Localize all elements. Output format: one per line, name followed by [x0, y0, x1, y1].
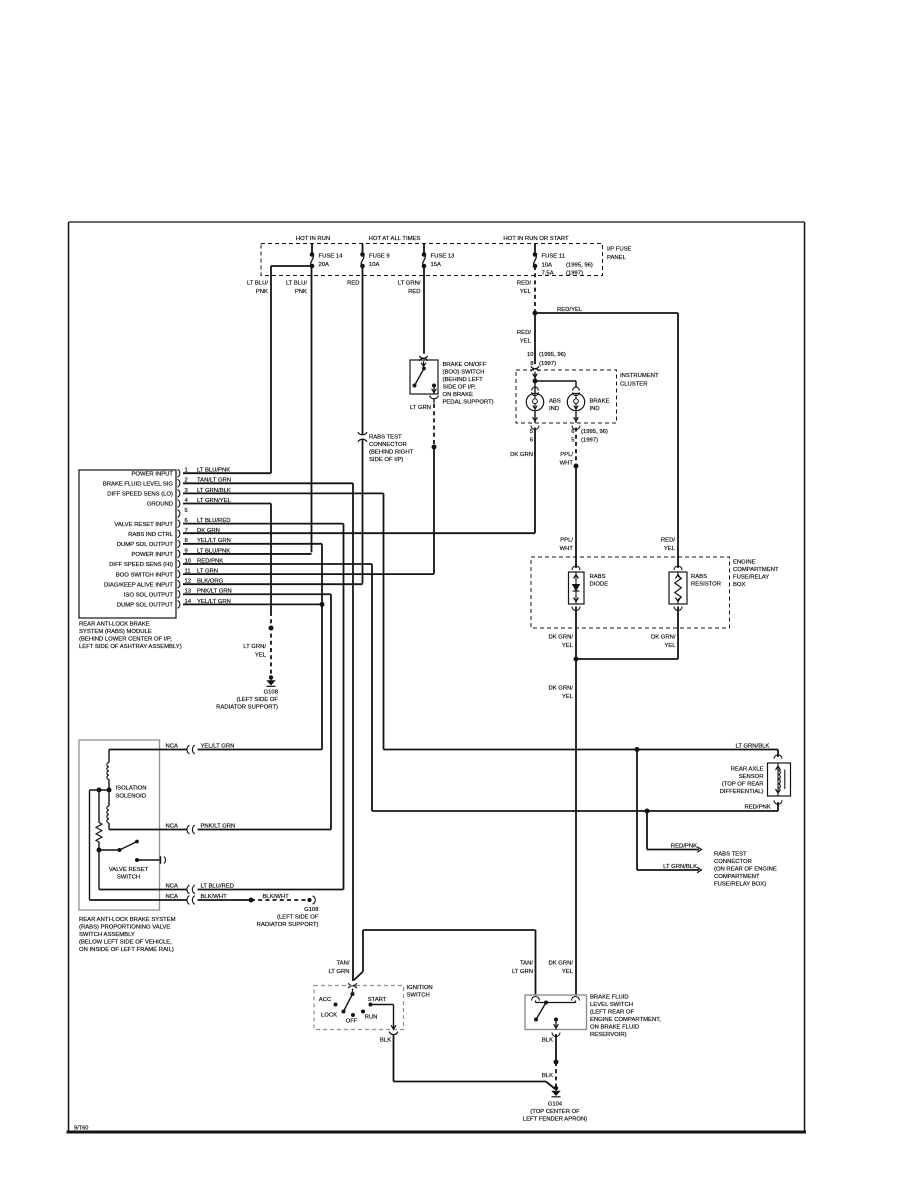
label G108 second (LEFT SIDE OF RADIATOR SUPPORT): [257, 907, 320, 928]
svg-text:PPL/: PPL/: [560, 538, 573, 544]
svg-text:(LEFT REAR OF: (LEFT REAR OF: [590, 1010, 634, 1016]
module RABS box: [79, 470, 176, 618]
svg-text:YEL: YEL: [664, 546, 676, 552]
svg-text:(BEHIND RIGHT: (BEHIND RIGHT: [369, 450, 414, 456]
wire DK GRN/YEL diode down: [575, 607, 577, 660]
svg-text:CONNECTOR: CONNECTOR: [369, 442, 407, 448]
module pin 2 BRAKE FLUID LEVEL SIG: [103, 478, 231, 488]
svg-text:5: 5: [185, 508, 189, 514]
svg-text:BLK/WHT: BLK/WHT: [201, 894, 228, 900]
svg-text:BLK: BLK: [542, 1073, 553, 1079]
svg-text:(BEHIND LOWER CENTER OF I/P,: (BEHIND LOWER CENTER OF I/P,: [79, 637, 172, 643]
svg-text:BLK/WHT: BLK/WHT: [263, 894, 290, 900]
svg-text:LT GRN/: LT GRN/: [398, 281, 421, 287]
svg-text:LT BLU/: LT BLU/: [286, 281, 307, 287]
svg-text:SYSTEM (RABS) MODULE: SYSTEM (RABS) MODULE: [79, 629, 152, 635]
svg-text:REAR ANTI-LOCK BRAKE: REAR ANTI-LOCK BRAKE: [79, 622, 150, 628]
svg-text:ENGINE: ENGINE: [733, 560, 756, 566]
svg-text:(1995, 96): (1995, 96): [566, 263, 593, 269]
svg-text:RABS IND CTRL: RABS IND CTRL: [128, 532, 174, 538]
svg-text:PPL/: PPL/: [560, 452, 573, 458]
svg-text:DIFF SPEED SENS (LO): DIFF SPEED SENS (LO): [107, 492, 173, 498]
svg-text:POWER INPUT: POWER INPUT: [131, 471, 173, 477]
svg-text:YEL: YEL: [562, 969, 574, 975]
label ISOLATION SOLENOID: [116, 786, 147, 800]
wire PPL/WHT dashed segment: [575, 428, 577, 467]
connector at BOO switch output: [430, 396, 439, 404]
wire TAN/LT GRN down to ignition switch: [352, 483, 354, 981]
wire BLK dashed to G104: [555, 1062, 557, 1087]
svg-text:CONNECTOR: CONNECTOR: [714, 859, 752, 865]
svg-text:POWER INPUT: POWER INPUT: [131, 552, 173, 558]
label RABS TEST CONNECTOR (ON REAR OF ENGINE COMPARTMENT FUSE/RELAY BOX): [714, 852, 777, 888]
wire LT GRN dashed from BOO switch: [433, 404, 435, 447]
svg-text:10: 10: [527, 352, 534, 358]
svg-text:YEL: YEL: [664, 643, 676, 649]
label LT GRN/BLK sensor feed: [736, 744, 770, 750]
svg-text:FUSE 11: FUSE 11: [542, 254, 565, 260]
svg-text:LT GRN/BLK: LT GRN/BLK: [663, 864, 697, 870]
cluster lower pin numbers: [530, 429, 608, 444]
label DK GRN/YEL diode output: [548, 635, 573, 650]
svg-text:YEL/LT GRN: YEL/LT GRN: [201, 744, 235, 750]
label RED/YEL above cluster: [517, 330, 532, 345]
svg-text:OFF: OFF: [346, 1019, 358, 1025]
junction pin 14 into pin 8 wire: [320, 602, 325, 607]
svg-text:PNK: PNK: [256, 289, 268, 295]
wire DK GRN/YEL resistor down and left: [576, 607, 678, 660]
svg-text:RED/: RED/: [661, 538, 675, 544]
svg-text:RED/PNK: RED/PNK: [745, 805, 771, 811]
svg-text:(LEFT SIDE OF: (LEFT SIDE OF: [237, 697, 279, 703]
module pin 9 POWER INPUT: [131, 548, 230, 558]
resistor R1 RABS RESISTOR: [669, 566, 687, 611]
switch S3 brake fluid level: [534, 1001, 576, 1030]
junction splice LT GRN/YEL: [269, 626, 274, 631]
svg-text:INSTRUMENT: INSTRUMENT: [620, 373, 659, 379]
label LT GRN/YEL: [243, 644, 266, 659]
ground G108 radiator support: [267, 675, 276, 686]
svg-text:RED/YEL: RED/YEL: [557, 307, 583, 313]
svg-text:REAR ANTI-LOCK BRAKE SYSTEM: REAR ANTI-LOCK BRAKE SYSTEM: [79, 917, 176, 923]
svg-text:YEL: YEL: [255, 653, 267, 659]
svg-text:YEL: YEL: [562, 643, 574, 649]
label TAN/LT GRN at ignition: [328, 961, 349, 976]
svg-text:NCA: NCA: [166, 744, 179, 750]
svg-text:HOT AT ALL TIMES: HOT AT ALL TIMES: [369, 236, 421, 242]
wire pin 3 LT GRN/BLK: [183, 492, 384, 494]
wire pin 2 TAN/LT GRN: [183, 482, 353, 484]
svg-text:ACC: ACC: [319, 997, 332, 1003]
wire pin 12 BLK/ORG: [183, 583, 363, 585]
connector at BOO switch input: [419, 356, 427, 361]
wire LT GRN to module pin 11: [433, 447, 435, 574]
module pin 14 DUMP SOL OUTPUT: [117, 599, 231, 609]
svg-text:ABS: ABS: [549, 399, 561, 405]
junction splice RED/YEL: [533, 311, 538, 316]
brake fluid level switch box: [525, 995, 587, 1030]
svg-text:START: START: [368, 997, 387, 1003]
label G104 (TOP CENTER OF LEFT FENDER APRON): [523, 1102, 587, 1123]
svg-text:RABS TEST: RABS TEST: [369, 435, 402, 441]
label ENGINE COMPARTMENT FUSE/RELAY BOX: [733, 560, 779, 589]
svg-text:WHT: WHT: [560, 461, 574, 467]
svg-text:(ON REAR OF ENGINE: (ON REAR OF ENGINE: [714, 867, 777, 873]
junction splice LT GRN: [432, 445, 437, 450]
wire LT GRN/RED fuse 13 to BOO switch: [423, 266, 425, 354]
svg-text:LEFT SIDE OF ASHTRAY ASSEMBLY): LEFT SIDE OF ASHTRAY ASSEMBLY): [79, 644, 182, 650]
svg-text:(1995, 96): (1995, 96): [581, 429, 608, 435]
svg-text:LT GRN: LT GRN: [512, 969, 533, 975]
wire DK GRN cluster to module pin 7: [183, 428, 535, 534]
I/P fuse panel dashed box: [261, 244, 603, 276]
fuse F13 15A: [422, 244, 455, 269]
svg-text:ENGINE COMPARTMENT,: ENGINE COMPARTMENT,: [590, 1017, 661, 1023]
label BRAKE ON/OFF (BOO) SWITCH: [443, 362, 494, 406]
label RED/PNK arrow: [671, 844, 697, 850]
wire RED/PNK down to rear axle sensor: [371, 564, 373, 811]
svg-text:7: 7: [185, 528, 188, 534]
svg-text:YEL: YEL: [562, 694, 574, 700]
svg-text:G108: G108: [304, 907, 319, 913]
svg-text:RABS: RABS: [691, 574, 707, 580]
svg-text:IGNITION: IGNITION: [407, 985, 433, 991]
label RABS TEST CONNECTOR (BEHIND RIGHT SIDE OF I/P): [369, 435, 414, 464]
connector at ignition switch input: [348, 983, 356, 992]
svg-text:TAN/: TAN/: [520, 961, 533, 967]
wire LT GRN/BLK down to rear axle sensor: [383, 493, 385, 749]
svg-text:PNK: PNK: [295, 289, 307, 295]
svg-text:5: 5: [571, 438, 575, 444]
switch S1 VALVE RESET SWITCH: [97, 840, 166, 864]
svg-text:DIODE: DIODE: [590, 582, 609, 588]
label LT BLU/PNK left: [247, 281, 268, 296]
svg-text:VALVE RESET INPUT: VALVE RESET INPUT: [114, 522, 173, 528]
label G108 (LEFT SIDE OF RADIATOR SUPPORT): [216, 690, 279, 711]
svg-text:FUSE 14: FUSE 14: [319, 254, 344, 260]
svg-text:LT GRN/: LT GRN/: [243, 644, 266, 650]
svg-text:REAR AXLE: REAR AXLE: [731, 767, 764, 773]
label VALVE RESET SWITCH: [109, 867, 149, 881]
connector at brake fluid switch output: [552, 1033, 560, 1037]
svg-text:SIDE OF I/P): SIDE OF I/P): [369, 457, 403, 463]
svg-text:LT GRN: LT GRN: [410, 405, 431, 411]
wire BLK from brake fluid switch: [555, 1034, 557, 1062]
solenoid L1 ISOLATION SOLENOID: [107, 750, 109, 830]
wire BLK from ignition switch to G104: [394, 1035, 555, 1089]
svg-text:RADIATOR SUPPORT): RADIATOR SUPPORT): [216, 705, 278, 711]
svg-text:BRAKE FLUID: BRAKE FLUID: [590, 995, 629, 1001]
wire BLK/ORG to module pin 12: [362, 440, 364, 584]
wire pin 11 LT GRN: [183, 573, 434, 575]
wire DK GRN/YEL to brake fluid level switch: [575, 659, 577, 995]
wire pin 8 YEL/LT GRN: [183, 543, 322, 545]
svg-text:DIFF SPEED SENS (HI): DIFF SPEED SENS (HI): [109, 562, 173, 568]
cluster pin 10/8 numbers: [527, 352, 566, 367]
svg-text:(BELOW LEFT SIDE OF VEHICLE,: (BELOW LEFT SIDE OF VEHICLE,: [79, 940, 172, 946]
fuse F9 10A: [360, 244, 389, 269]
svg-text:SENSOR: SENSOR: [739, 774, 764, 780]
label LT BLU/PNK second: [286, 281, 307, 296]
svg-text:LT BLU/RED: LT BLU/RED: [201, 884, 235, 890]
svg-text:ON BRAKE: ON BRAKE: [443, 392, 474, 398]
junction splice LT GRN/BLK: [635, 747, 640, 752]
connectors at brake fluid switch inputs: [532, 997, 580, 1001]
svg-text:LT GRN: LT GRN: [328, 969, 349, 975]
wire LT BLU/RED down to valve reset switch: [343, 524, 345, 890]
wire NCA YEL/LT GRN row: [109, 744, 322, 754]
svg-text:20A: 20A: [319, 262, 330, 268]
label TAN/LT GRN at brake fluid switch: [512, 961, 533, 976]
wire pin 1 LT BLU/PNK: [183, 472, 271, 474]
drawing border frame: [67, 222, 807, 1132]
svg-text:(TOP OF REAR: (TOP OF REAR: [722, 782, 764, 788]
connector to ground G108: [307, 896, 315, 904]
svg-text:FUSE/RELAY: FUSE/RELAY: [733, 575, 769, 581]
svg-text:BLK: BLK: [542, 1038, 553, 1044]
instrument cluster dashed box: [516, 370, 617, 423]
resistor R2 valve reset: [96, 790, 102, 850]
svg-text:RUN: RUN: [365, 1015, 378, 1021]
svg-text:FUSE 13: FUSE 13: [431, 254, 456, 260]
wire PPL/WHT to RABS diode: [575, 466, 577, 568]
ignition position contacts: [334, 1003, 373, 1018]
switch S2 ignition rotor: [342, 992, 355, 1014]
label module description: [79, 622, 182, 651]
label BLK upper: [542, 1038, 553, 1044]
wire solenoid center tap: [90, 789, 110, 791]
label I/P FUSE PANEL: [607, 247, 632, 262]
svg-text:ISOLATION: ISOLATION: [116, 786, 147, 792]
svg-text:G104: G104: [548, 1102, 563, 1108]
wire RED/PNK branch to RABS test connector: [647, 811, 702, 852]
svg-text:(BOO) SWITCH: (BOO) SWITCH: [443, 370, 485, 376]
svg-text:(RABS) PROPORTIONING VALVE: (RABS) PROPORTIONING VALVE: [79, 925, 170, 931]
svg-text:VALVE RESET: VALVE RESET: [109, 867, 149, 873]
cluster lamp output stubs: [531, 411, 580, 430]
label LT GRN/RED: [398, 281, 421, 296]
svg-text:DK GRN/: DK GRN/: [548, 635, 573, 641]
label DK GRN cluster output: [510, 452, 533, 458]
wire pin 13 PNK/LT GRN: [183, 593, 331, 595]
wire NCA PNK/LT GRN row: [109, 824, 331, 834]
label DK GRN/YEL below junction: [548, 686, 573, 701]
svg-text:BRAKE ON/OFF: BRAKE ON/OFF: [443, 362, 487, 368]
inline RABS test connector on RED wire: [358, 432, 367, 442]
connector cluster RED/YEL input: [531, 366, 539, 377]
svg-text:DIAG/KEEP ALIVE INPUT: DIAG/KEEP ALIVE INPUT: [104, 582, 173, 588]
svg-text:G108: G108: [264, 690, 279, 696]
wire RED fuse 9 down to RABS test connector: [362, 266, 364, 435]
label RABS DIODE: [590, 574, 609, 588]
wire TAN/LT GRN branch to brake fluid switch: [354, 930, 536, 995]
label RED/YEL at resistor: [661, 538, 676, 553]
label DK GRN/YEL at brake fluid switch: [548, 961, 573, 976]
module pin 4 GROUND: [147, 498, 232, 508]
svg-text:9/T60: 9/T60: [74, 1126, 88, 1132]
label IGNITION SWITCH: [407, 985, 433, 999]
wire pin 14 YEL/LT GRN: [183, 603, 322, 605]
label BRAKE FLUID LEVEL SWITCH description: [590, 995, 661, 1039]
BOO switch internals: [413, 361, 437, 394]
svg-text:HOT IN RUN OR START: HOT IN RUN OR START: [503, 236, 569, 242]
wire BLK/WHT dashed to G108: [251, 894, 306, 900]
svg-text:DK GRN/: DK GRN/: [548, 961, 573, 967]
svg-text:DK GRN: DK GRN: [197, 528, 220, 534]
wire RED/YEL into instrument cluster: [534, 313, 536, 364]
svg-text:ON BRAKE FLUID: ON BRAKE FLUID: [590, 1025, 639, 1031]
svg-text:(BEHIND LEFT: (BEHIND LEFT: [443, 377, 484, 383]
fuse F14 20A: [310, 244, 343, 269]
svg-text:YEL: YEL: [520, 289, 532, 295]
svg-text:TAN/: TAN/: [337, 961, 350, 967]
brake on/off (BOO) switch box: [410, 360, 438, 394]
wire valve reset to LT BLU/RED row: [98, 850, 100, 890]
wire START contact to output: [371, 1005, 394, 1029]
label LT GRN/BLK arrow: [663, 864, 697, 870]
wire LT BLU/PNK to module pin 1: [270, 266, 272, 473]
svg-text:PANEL: PANEL: [607, 255, 627, 261]
svg-text:GROUND: GROUND: [147, 502, 173, 508]
svg-text:HOT IN RUN: HOT IN RUN: [296, 236, 330, 242]
label PPL/WHT upper: [560, 452, 574, 467]
module pin 10 DIFF SPEED SENS (HI): [109, 558, 223, 568]
svg-text:RESERVOIR): RESERVOIR): [590, 1032, 627, 1038]
ignition switch dashed box: [314, 986, 404, 1030]
label PPL/WHT lower: [560, 538, 574, 553]
ignition position labels: [319, 997, 387, 1025]
label RED/PNK sensor feed: [745, 805, 771, 811]
label RABS RESISTOR: [691, 574, 721, 588]
svg-text:RED/: RED/: [517, 330, 531, 336]
module pin 13 ISO SOL OUTPUT: [124, 589, 232, 599]
svg-text:LEFT FENDER APRON): LEFT FENDER APRON): [523, 1117, 587, 1123]
RABS proportioning valve switch assembly box: [79, 740, 160, 910]
svg-text:10A: 10A: [369, 262, 380, 268]
sensor REAR AXLE SENSOR: [768, 755, 791, 805]
svg-text:IND: IND: [590, 406, 600, 412]
diode U1 RABS DIODE: [569, 566, 585, 611]
svg-text:I/P FUSE: I/P FUSE: [607, 247, 632, 253]
fuse F11 10A/7.5A: [533, 244, 593, 277]
label LT GRN: [410, 405, 431, 411]
junction inside cluster: [533, 374, 577, 387]
svg-text:BOO SWITCH INPUT: BOO SWITCH INPUT: [116, 572, 174, 578]
wire RED/YEL fuse 11 dashed segment: [534, 266, 536, 313]
svg-text:ISO SOL OUTPUT: ISO SOL OUTPUT: [124, 592, 174, 598]
svg-text:BRAKE FLUID LEVEL SIG: BRAKE FLUID LEVEL SIG: [103, 481, 174, 487]
svg-text:15A: 15A: [431, 262, 442, 268]
junction splice DK GRN/YEL: [574, 657, 579, 662]
svg-text:RESISTOR: RESISTOR: [691, 582, 721, 588]
module pin 11 BOO SWITCH INPUT: [116, 569, 218, 579]
lamp BRAKE IND: [567, 387, 609, 412]
svg-text:SOLENOID: SOLENOID: [116, 794, 146, 800]
wire LT BLU/PNK to module pin 9: [311, 266, 313, 552]
svg-text:SWITCH ASSEMBLY: SWITCH ASSEMBLY: [79, 932, 135, 938]
svg-text:CLUSTER: CLUSTER: [620, 382, 648, 388]
svg-text:NCA: NCA: [166, 884, 179, 890]
label assembly description: [79, 917, 176, 953]
header HOT AT ALL TIMES: [369, 236, 421, 242]
header HOT IN RUN: [296, 236, 330, 242]
svg-text:PNK/LT GRN: PNK/LT GRN: [201, 824, 236, 830]
svg-text:LEVEL SWITCH: LEVEL SWITCH: [590, 1002, 633, 1008]
junction splice PPL/WHT: [574, 464, 579, 469]
svg-text:WHT: WHT: [560, 546, 574, 552]
svg-text:10A: 10A: [542, 263, 553, 269]
wire YEL/LT GRN down to isolation solenoid: [321, 544, 323, 750]
label DK GRN/YEL resistor output: [651, 635, 676, 650]
svg-text:DK GRN/: DK GRN/: [651, 635, 676, 641]
svg-text:ON INSIDE OF LEFT FRAME RAIL): ON INSIDE OF LEFT FRAME RAIL): [79, 947, 174, 953]
wire pin 10 RED/PNK: [183, 563, 372, 565]
svg-text:FUSE 9: FUSE 9: [369, 254, 390, 260]
wire LT GRN/YEL ground run: [270, 503, 272, 676]
svg-text:8: 8: [530, 361, 534, 367]
svg-text:RED: RED: [408, 289, 420, 295]
svg-text:RADIATOR SUPPORT): RADIATOR SUPPORT): [257, 922, 319, 928]
svg-text:BLK: BLK: [380, 1038, 391, 1044]
svg-text:(1997): (1997): [566, 271, 583, 277]
ground G104 top center of left fender apron: [552, 1086, 561, 1097]
svg-text:PEDAL SUPPORT): PEDAL SUPPORT): [443, 400, 494, 406]
wire NCA LT BLU/RED row: [99, 884, 344, 894]
wire RED/YEL branch to RABS resistor: [535, 307, 678, 568]
svg-text:DUMP SOL OUTPUT: DUMP SOL OUTPUT: [117, 603, 174, 609]
svg-text:SWITCH: SWITCH: [407, 993, 430, 999]
module pin 7 RABS IND CTRL: [128, 528, 220, 538]
module pin 3 DIFF SPEED SENS (LO): [107, 488, 231, 498]
svg-text:BOX: BOX: [733, 582, 746, 588]
wire pin 6 LT BLU/RED: [183, 523, 344, 525]
svg-text:YEL: YEL: [520, 339, 532, 345]
svg-text:(TOP CENTER OF: (TOP CENTER OF: [530, 1109, 580, 1115]
module pin 12 DIAG/KEEP ALIVE INPUT: [104, 579, 224, 589]
junction splice BLK: [554, 1060, 559, 1065]
wire pin 4 LT GRN/YEL: [183, 502, 271, 504]
svg-text:DUMP SOL OUTPUT: DUMP SOL OUTPUT: [117, 542, 174, 548]
header HOT IN RUN OR START: [503, 236, 569, 242]
svg-text:NCA: NCA: [166, 894, 179, 900]
svg-text:COMPARTMENT: COMPARTMENT: [714, 874, 760, 880]
svg-text:RED/PNK: RED/PNK: [671, 844, 697, 850]
label REAR AXLE SENSOR (TOP OF REAR DIFFERENTIAL): [720, 767, 764, 796]
svg-text:RED: RED: [347, 281, 359, 287]
wire PNK/LT GRN down to isolation solenoid: [330, 594, 332, 829]
svg-text:DIFFERENTIAL): DIFFERENTIAL): [720, 789, 764, 795]
svg-text:NCA: NCA: [166, 824, 179, 830]
wire LT GRN/BLK to rear axle sensor: [384, 750, 779, 758]
svg-text:SWITCH: SWITCH: [117, 875, 140, 881]
module pin 8 DUMP SOL OUTPUT: [117, 538, 231, 548]
svg-text:6: 6: [530, 438, 534, 444]
svg-text:FUSE/RELAY BOX): FUSE/RELAY BOX): [714, 882, 766, 888]
wire RED/PNK to rear axle sensor: [372, 802, 778, 811]
svg-text:COMPARTMENT: COMPARTMENT: [733, 567, 779, 573]
svg-text:RABS: RABS: [590, 574, 606, 580]
wire BLK/WHT branch down: [89, 790, 91, 900]
footer drawing number 9/T60: [74, 1126, 88, 1132]
label BLK lower: [542, 1073, 553, 1079]
junction splice RED/PNK: [645, 809, 650, 814]
svg-text:DK GRN/: DK GRN/: [548, 686, 573, 692]
svg-text:LOCK: LOCK: [321, 1013, 337, 1019]
engine compartment fuse/relay dashed box: [531, 557, 730, 628]
svg-text:SIDE OF I/P,: SIDE OF I/P,: [443, 385, 477, 391]
label BLK at ignition: [380, 1038, 391, 1044]
svg-text:LT BLU/: LT BLU/: [247, 281, 268, 287]
